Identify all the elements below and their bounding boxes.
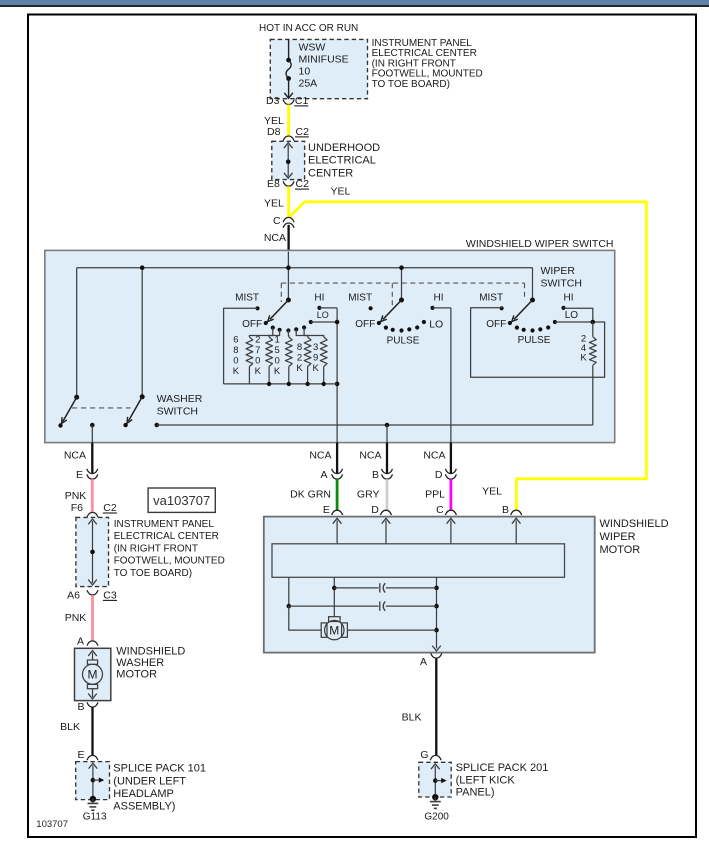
svg-text:HOT IN ACC OR RUN: HOT IN ACC OR RUN (259, 23, 358, 34)
svg-text:K: K (296, 363, 303, 374)
splice pack 201 box (419, 762, 451, 797)
svg-text:C2: C2 (296, 178, 310, 190)
svg-text:K: K (580, 353, 587, 364)
washer switch mechanical link dashed (72, 407, 131, 409)
junction feed rail at section 2 (399, 265, 404, 270)
splice pack 101 box (76, 762, 110, 800)
svg-text:E8: E8 (267, 178, 280, 190)
instrument panel electrical center box (left) (76, 517, 109, 586)
svg-text:FOOTWELL, MOUNTED: FOOTWELL, MOUNTED (114, 556, 225, 567)
svg-text:DK GRN: DK GRN (290, 489, 331, 501)
svg-text:TO TOE BOARD): TO TOE BOARD) (372, 79, 450, 90)
svg-text:NCA: NCA (359, 450, 381, 462)
svg-text:C2: C2 (103, 502, 117, 514)
svg-text:G: G (420, 749, 428, 761)
svg-text:WIPER: WIPER (541, 265, 576, 277)
svg-text:WIPER: WIPER (600, 531, 636, 543)
svg-text:10: 10 (299, 66, 311, 78)
mechanical link dashed (281, 282, 524, 284)
instrument panel electrical center box (top) (270, 39, 367, 98)
svg-text:NCA: NCA (309, 450, 331, 462)
svg-text:ASSEMBLY): ASSEMBLY) (113, 801, 175, 813)
svg-text:K: K (233, 366, 240, 377)
svg-text:YEL: YEL (482, 486, 502, 498)
wire pulse net horizontal (155, 423, 160, 428)
underhood electrical center internal wire (287, 145, 289, 177)
svg-text:E: E (323, 504, 330, 516)
svg-text:ELECTRICAL CENTER: ELECTRICAL CENTER (114, 531, 219, 542)
wire S1 output vertical to pin A (336, 308, 338, 443)
wire PNK to washer motor (91, 595, 94, 641)
wire S1 resistor bus (224, 383, 338, 385)
wire S1 MIST to bus (224, 308, 258, 384)
svg-text:5: 5 (274, 345, 279, 356)
junction feed rail at section 1 (286, 265, 291, 270)
svg-text:LO: LO (565, 310, 579, 321)
svg-text:(UNDER LEFT: (UNDER LEFT (113, 775, 186, 787)
switch S1 arm (270, 300, 289, 319)
capacitor C1 (334, 587, 378, 589)
svg-text:(IN RIGHT FRONT: (IN RIGHT FRONT (114, 543, 198, 554)
svg-text:YEL: YEL (331, 186, 351, 198)
svg-text:A6: A6 (67, 589, 80, 601)
svg-text:SPLICE PACK 101: SPLICE PACK 101 (113, 763, 206, 775)
splice pack 201 internal (434, 766, 436, 797)
underhood electrical center box (272, 141, 305, 179)
motor pin E entry arrow (336, 521, 338, 544)
svg-text:F6: F6 (71, 502, 83, 514)
wire BLK motor to splice pack 201 (435, 658, 437, 756)
svg-text:ELECTRICAL: ELECTRICAL (308, 155, 376, 167)
svg-text:M: M (329, 623, 339, 637)
wire PPL pin D (449, 479, 452, 510)
washer switch pole 1 (74, 395, 79, 400)
svg-text:NCA: NCA (423, 450, 445, 462)
svg-text:SPLICE PACK 201: SPLICE PACK 201 (456, 762, 549, 774)
svg-text:NCA: NCA (64, 450, 86, 462)
svg-text:25A: 25A (299, 78, 318, 90)
motor pin C entry arrow (450, 521, 452, 544)
resistor R3 150K (287, 331, 289, 338)
wire PNK pin E (91, 479, 94, 512)
switch S2 arm (383, 300, 402, 319)
svg-text:0: 0 (274, 356, 279, 367)
svg-text:PANEL): PANEL) (456, 787, 495, 799)
svg-text:2: 2 (297, 353, 302, 364)
svg-text:A: A (77, 636, 84, 648)
junction S3 LO/HI/resistor (591, 320, 596, 325)
svg-text:OFF: OFF (242, 319, 262, 330)
resistor R2 270K (269, 330, 280, 337)
motor M2 washer (87, 660, 97, 664)
svg-text:BLK: BLK (402, 711, 422, 723)
windshield washer motor box (75, 648, 111, 700)
svg-text:2: 2 (255, 335, 260, 346)
junction feed rail at washer switch (140, 265, 145, 270)
svg-text:9: 9 (313, 353, 318, 364)
splice pack 101 internal (92, 765, 94, 798)
svg-text:D: D (435, 469, 443, 481)
svg-text:LO: LO (317, 310, 329, 320)
svg-text:B: B (77, 701, 84, 713)
svg-text:G113: G113 (83, 812, 107, 823)
switch S3 contacts (500, 306, 504, 310)
wire NCA into wiper switch (287, 225, 289, 252)
svg-text:C2: C2 (296, 126, 310, 138)
wire S3 HI to junction (564, 308, 593, 322)
svg-text:WSW: WSW (299, 42, 326, 54)
wire motor right terminal (347, 629, 436, 631)
svg-text:HI: HI (434, 293, 444, 304)
svg-text:PPL: PPL (425, 489, 445, 501)
svg-text:MOTOR: MOTOR (600, 544, 641, 556)
svg-text:B: B (502, 504, 509, 516)
svg-text:8: 8 (297, 342, 302, 353)
svg-text:WINDSHIELD: WINDSHIELD (116, 646, 185, 658)
junction pulse net to pin B (385, 423, 390, 428)
wire NCA pin B (386, 443, 388, 474)
wire S3 MIST loop (471, 308, 605, 378)
svg-text:HI: HI (314, 293, 324, 304)
svg-text:D3: D3 (266, 95, 280, 107)
washer switch pole 2 (140, 394, 145, 399)
svg-text:1: 1 (274, 335, 279, 346)
washer motor exit arrow (92, 689, 94, 697)
switch S2 contacts (369, 306, 373, 310)
svg-text:MIST: MIST (479, 293, 503, 304)
svg-text:MINIFUSE: MINIFUSE (299, 54, 349, 66)
wire S1 LO to output (311, 321, 337, 323)
motor pin D entry arrow (385, 521, 387, 544)
wiper motor net left (288, 577, 290, 606)
svg-text:LO: LO (429, 318, 443, 330)
wiper motor net right to pin A (436, 577, 438, 648)
motor pin B entry arrow (515, 521, 517, 544)
svg-text:WINDSHIELD WIPER SWITCH: WINDSHIELD WIPER SWITCH (466, 238, 614, 250)
svg-text:E: E (77, 749, 84, 761)
svg-text:HI: HI (564, 293, 574, 304)
ground G113 (90, 796, 96, 802)
ground G200 (432, 794, 438, 800)
svg-text:0: 0 (233, 356, 238, 367)
wiper motor net middle (333, 577, 335, 616)
wire GRY pin B (386, 479, 389, 510)
resistor R4 82K (296, 329, 307, 337)
svg-text:6: 6 (233, 335, 238, 346)
svg-text:A: A (320, 469, 327, 481)
svg-text:SWITCH: SWITCH (541, 278, 582, 290)
resistor R6 24K (592, 322, 594, 337)
svg-text:PULSE: PULSE (387, 336, 420, 347)
svg-text:8: 8 (233, 345, 238, 356)
wire YEL underhood to switch feed (287, 186, 290, 217)
fuse WSW MINIFUSE 10 25A (288, 39, 290, 58)
wire S2 HI to pin D (433, 307, 451, 309)
svg-text:WINDSHIELD: WINDSHIELD (600, 518, 669, 530)
switch S2 pivot (399, 298, 404, 303)
svg-text:CENTER: CENTER (308, 167, 353, 179)
svg-text:INSTRUMENT PANEL: INSTRUMENT PANEL (114, 519, 215, 530)
svg-text:C1: C1 (295, 95, 309, 107)
svg-text:MIST: MIST (235, 293, 259, 304)
svg-text:C3: C3 (103, 589, 117, 601)
svg-text:OFF: OFF (486, 319, 506, 330)
svg-text:MIST: MIST (348, 293, 372, 304)
wire S3 LO to junction (555, 321, 593, 323)
wire NCA pin A (336, 443, 338, 474)
svg-text:B: B (372, 469, 379, 481)
wire NCA pin E (91, 443, 93, 474)
svg-text:D: D (371, 504, 379, 516)
svg-text:0: 0 (255, 356, 260, 367)
svg-text:YEL: YEL (264, 198, 284, 210)
svg-text:WASHER: WASHER (157, 393, 203, 405)
svg-text:K: K (255, 366, 262, 377)
wire YEL fuse to underhood electrical center (287, 105, 290, 136)
switch S1 pivot (286, 298, 291, 303)
svg-text:PNK: PNK (65, 612, 87, 624)
svg-text:K: K (274, 366, 281, 377)
switch S3 arm (514, 300, 533, 319)
washer motor entry arrow (92, 653, 94, 660)
svg-text:A: A (420, 656, 427, 668)
svg-text:C: C (273, 215, 281, 227)
capacitor C2 (289, 605, 379, 607)
svg-text:NCA: NCA (264, 232, 286, 244)
svg-text:GRY: GRY (357, 489, 380, 501)
motor M1 wiper (329, 617, 341, 622)
svg-text:D8: D8 (267, 126, 281, 138)
svg-text:WASHER: WASHER (116, 657, 164, 669)
svg-text:(LEFT KICK: (LEFT KICK (456, 774, 516, 786)
svg-text:M: M (88, 668, 98, 682)
svg-text:K: K (313, 363, 320, 374)
svg-text:UNDERHOOD: UNDERHOOD (308, 142, 380, 154)
svg-text:7: 7 (255, 345, 260, 356)
svg-text:MOTOR: MOTOR (116, 669, 157, 681)
switch S3 pivot (530, 298, 535, 303)
resistor R5 39K (304, 328, 324, 338)
svg-text:PNK: PNK (65, 490, 87, 502)
windshield wiper motor box (264, 517, 595, 653)
wire YEL branch to wiper motor pin B (289, 202, 647, 511)
svg-text:va103707: va103707 (153, 493, 210, 508)
switch S1 contacts (255, 306, 259, 310)
svg-text:E: E (76, 469, 83, 481)
svg-text:HEADLAMP: HEADLAMP (113, 788, 174, 800)
svg-text:PULSE: PULSE (518, 335, 551, 346)
svg-text:103707: 103707 (36, 819, 68, 830)
svg-text:BLK: BLK (60, 721, 80, 733)
resistor R1 680K (249, 328, 272, 337)
ip electrical center internal wire (92, 521, 94, 583)
tag va103707 (148, 488, 215, 512)
wire NCA pin D (450, 443, 452, 474)
svg-text:C: C (436, 504, 444, 516)
page header bar (0, 0, 709, 5)
wire feed rail inside switch (77, 267, 533, 269)
svg-text:TO TOE BOARD): TO TOE BOARD) (114, 568, 192, 579)
node washer output to pin E (90, 423, 95, 428)
wiper motor internal block (272, 544, 565, 578)
svg-text:G200: G200 (424, 812, 449, 823)
wire BLK washer motor to splice pack 101 (91, 707, 93, 756)
svg-text:3: 3 (313, 342, 318, 353)
wire DK GRN pin A (336, 479, 339, 510)
wire S1 HI to output (319, 307, 337, 309)
windshield wiper switch box (45, 250, 615, 442)
svg-text:OFF: OFF (355, 319, 375, 330)
svg-text:SWITCH: SWITCH (157, 406, 198, 418)
